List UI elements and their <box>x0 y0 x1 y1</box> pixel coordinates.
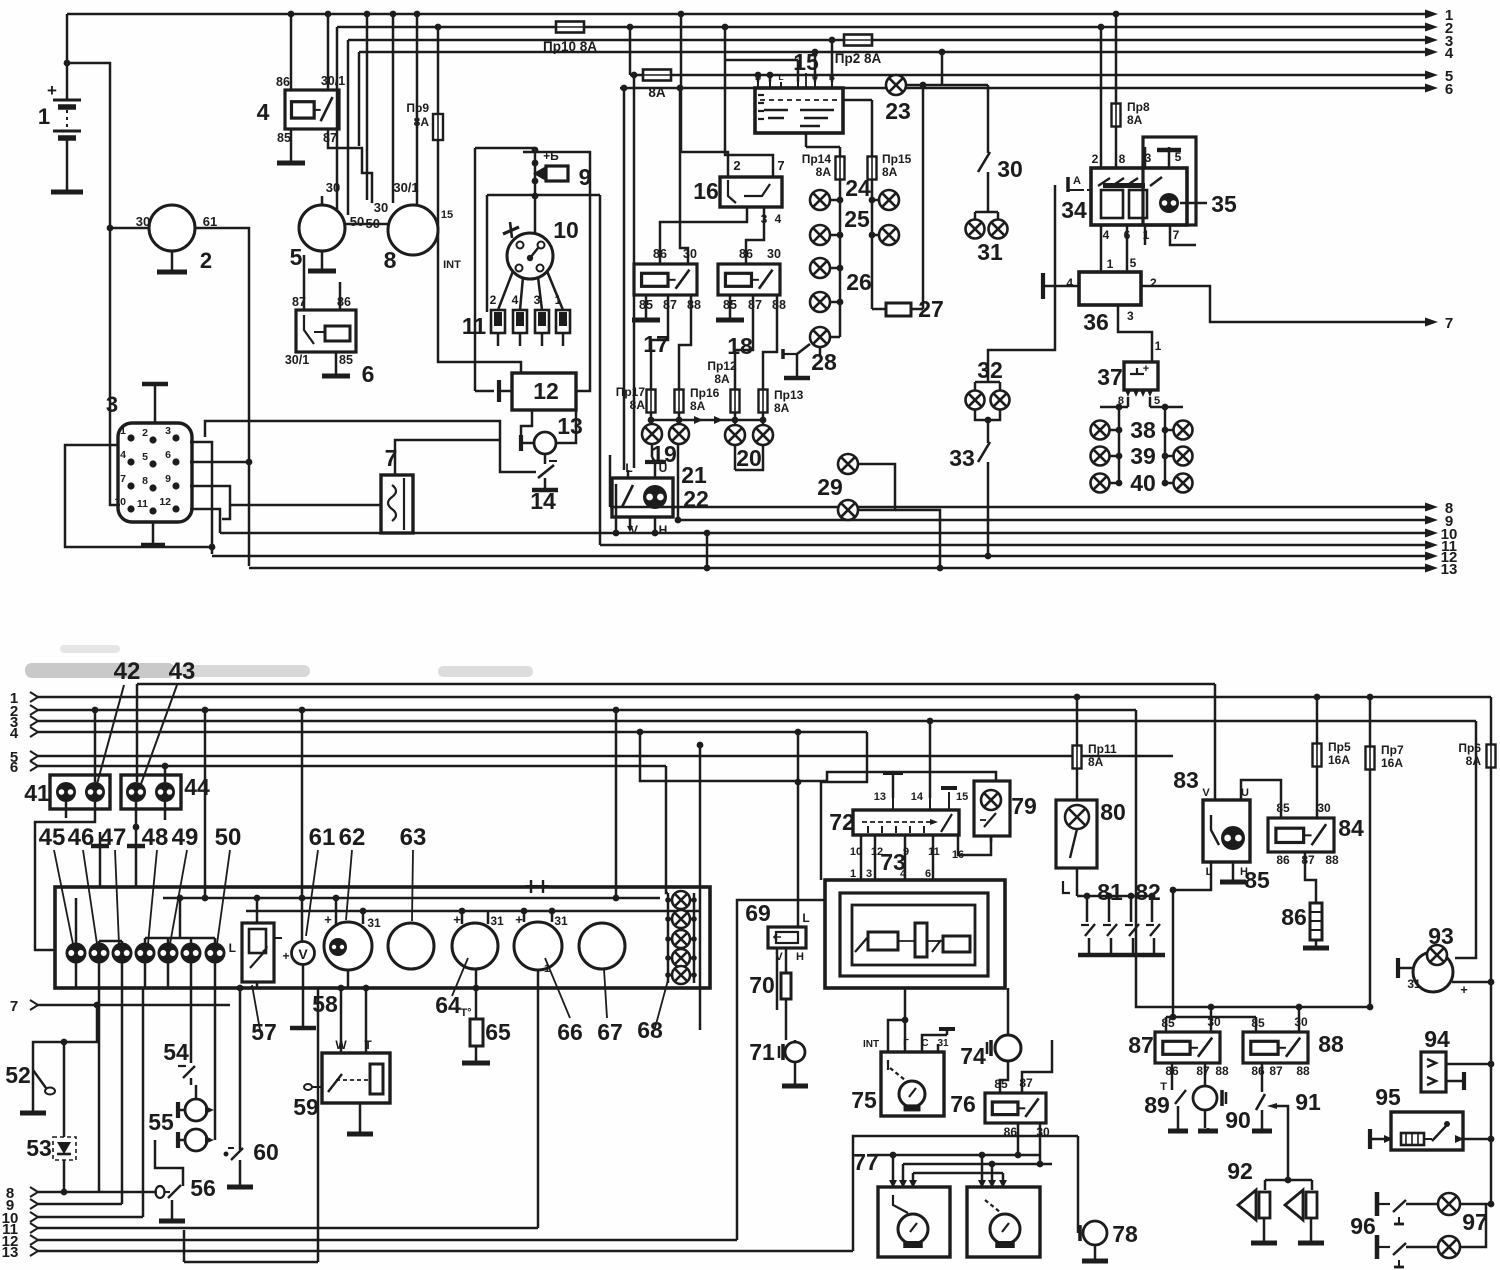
wire 29 bracket <box>858 464 943 571</box>
wire line5 tap <box>627 24 634 75</box>
wire 41 out <box>35 802 95 950</box>
label 26 <box>846 269 872 295</box>
wire 13 right <box>556 410 576 443</box>
wire bus line 10 <box>220 526 1457 543</box>
ground generator 2 <box>157 251 187 272</box>
label 40 <box>1130 470 1156 496</box>
svg-text:33: 33 <box>949 445 975 471</box>
svg-text:69: 69 <box>745 900 771 926</box>
label 43 <box>141 658 195 784</box>
wire 44 feed <box>136 684 139 782</box>
svg-text:30: 30 <box>1317 801 1331 815</box>
flasher 7 <box>381 445 413 533</box>
svg-text:4: 4 <box>1445 45 1454 62</box>
wire bus line 8 <box>610 500 1453 517</box>
svg-text:1: 1 <box>850 868 856 880</box>
svg-text:30: 30 <box>767 247 781 261</box>
svg-text:42: 42 <box>114 658 141 685</box>
cluster lamp 3 <box>112 943 133 964</box>
wire bot line 1 <box>10 690 1491 707</box>
wire 53 <box>61 1039 68 1196</box>
svg-text:60: 60 <box>253 1139 279 1165</box>
svg-text:87: 87 <box>1301 853 1315 867</box>
switch A of 34 <box>1068 175 1091 192</box>
svg-text:31: 31 <box>554 914 568 928</box>
svg-text:6: 6 <box>925 868 931 880</box>
ground 83 <box>1220 862 1270 893</box>
svg-text:55: 55 <box>148 1109 174 1135</box>
svg-text:2: 2 <box>733 158 740 173</box>
wire 36 pin3 <box>1118 305 1162 362</box>
svg-text:8А: 8А <box>714 372 730 386</box>
lamp 38a <box>1091 421 1123 440</box>
svg-text:2: 2 <box>142 427 148 439</box>
diode 53 <box>26 1135 76 1161</box>
svg-text:+: + <box>324 912 332 927</box>
svg-text:8: 8 <box>384 247 397 273</box>
label 49 <box>170 824 198 944</box>
svg-text:1: 1 <box>1107 257 1114 271</box>
svg-text:L: L <box>802 911 809 925</box>
svg-text:83: 83 <box>1173 767 1199 793</box>
svg-text:4: 4 <box>257 99 270 125</box>
wire conn left loop <box>65 445 215 550</box>
switch 91 <box>1252 1063 1321 1180</box>
wire 83 L <box>1170 862 1211 893</box>
connector 72 <box>829 809 959 835</box>
ground above 72 pin13 <box>883 773 903 798</box>
coil12 left terminal <box>499 380 512 402</box>
wire 79 feed <box>637 729 996 781</box>
ground above 34 <box>1157 147 1181 168</box>
svg-text:90: 90 <box>1225 1107 1251 1133</box>
svg-text:53: 53 <box>26 1135 52 1161</box>
wire 76 87 <box>1022 1040 1052 1093</box>
svg-text:23: 23 <box>885 98 911 124</box>
svg-text:24: 24 <box>845 175 871 201</box>
wire 72 pin16 <box>958 835 991 855</box>
svg-text:2: 2 <box>490 293 497 307</box>
svg-text:3: 3 <box>866 868 872 880</box>
svg-text:70: 70 <box>749 972 775 998</box>
wire 72 pin14 <box>927 718 934 798</box>
wire top line 683 <box>137 683 1215 686</box>
svg-text:88: 88 <box>1215 1064 1229 1078</box>
svg-text:8: 8 <box>1119 152 1126 166</box>
svg-text:57: 57 <box>251 1019 277 1045</box>
wire 76 85 <box>1000 1061 1008 1093</box>
wire 50 link <box>345 216 388 231</box>
wire 77 feed left <box>853 1136 1078 1251</box>
svg-text:86: 86 <box>1276 853 1290 867</box>
svg-text:91: 91 <box>1295 1089 1321 1115</box>
ground relay17 <box>632 295 660 320</box>
label 45 <box>39 824 73 944</box>
wire jog 707 <box>704 530 711 572</box>
wire 16 pin2 <box>678 11 728 177</box>
ground above 21 <box>645 462 666 478</box>
wire 77 bus c <box>913 1152 1003 1183</box>
wire conn mid <box>190 509 220 533</box>
fuse Пр16 8А <box>675 386 720 413</box>
wire reg pin B1 <box>755 72 762 82</box>
svg-text:16: 16 <box>693 178 719 204</box>
svg-text:50: 50 <box>366 216 380 231</box>
svg-text:+: + <box>1460 982 1468 997</box>
wire 83 V <box>1214 684 1217 800</box>
regulator 15 pins <box>755 72 835 88</box>
wire 84 87 down <box>1305 852 1316 903</box>
wire 68 feed <box>666 766 668 893</box>
lamp stems <box>76 898 215 1192</box>
wire coil12 right <box>523 152 590 391</box>
label 42 <box>97 658 140 784</box>
gauge 63 <box>388 923 434 969</box>
switch 5 <box>290 180 365 270</box>
svg-text:52: 52 <box>5 1062 31 1088</box>
switch 96a <box>1377 1192 1438 1224</box>
svg-text:76: 76 <box>950 1091 976 1117</box>
wire line11 bend <box>599 195 602 545</box>
wire line9 up <box>121 988 124 1204</box>
wire 34 pin2 <box>1098 24 1105 168</box>
svg-text:85: 85 <box>1244 867 1270 893</box>
cluster lamp 1 <box>66 943 87 964</box>
label T deg <box>460 1007 471 1019</box>
relay6 labels <box>285 295 375 387</box>
label 20 <box>736 445 762 471</box>
cluster rail 911 <box>246 910 700 913</box>
svg-text:67: 67 <box>597 1019 623 1045</box>
svg-text:25: 25 <box>844 206 870 232</box>
svg-text:7: 7 <box>777 158 784 173</box>
label 25 <box>844 206 870 232</box>
svg-text:72: 72 <box>829 809 855 835</box>
wire bot line 4 <box>10 725 867 742</box>
ground 71 <box>782 1062 808 1086</box>
svg-text:58: 58 <box>312 991 338 1017</box>
svg-text:2: 2 <box>1092 152 1099 166</box>
svg-text:88: 88 <box>1318 1031 1344 1057</box>
lamp 74 <box>960 988 1021 1069</box>
wiper switch 34 <box>1061 137 1196 225</box>
wire 77 bus b <box>903 1161 1052 1183</box>
connector 94 <box>1421 1026 1494 1092</box>
wire 62 pins <box>333 895 367 924</box>
72 bottom pins <box>850 846 964 861</box>
svg-text:75: 75 <box>851 1087 877 1113</box>
svg-text:94: 94 <box>1424 1026 1450 1052</box>
resistor 70 <box>749 948 791 1040</box>
fuse Пр15 8А <box>868 152 912 180</box>
svg-text:7: 7 <box>1445 315 1453 332</box>
svg-text:Пр15: Пр15 <box>882 152 912 166</box>
svg-text:15: 15 <box>956 791 968 803</box>
switch block 21-22 <box>612 461 709 537</box>
svg-text:71: 71 <box>749 1039 775 1065</box>
svg-text:87: 87 <box>748 298 762 312</box>
lamp 39b <box>1162 447 1193 466</box>
wire 44 out <box>133 802 165 887</box>
lamp 24b <box>869 190 899 210</box>
svg-text:L: L <box>229 941 236 955</box>
svg-text:15: 15 <box>441 209 453 221</box>
svg-text:+: + <box>515 912 523 927</box>
switch 96b <box>1377 1235 1438 1267</box>
wire extra 1262 <box>184 988 318 1262</box>
svg-text:13: 13 <box>2 1244 19 1261</box>
svg-text:86: 86 <box>276 75 290 89</box>
svg-text:97: 97 <box>1462 1209 1488 1235</box>
cluster tick <box>525 880 549 893</box>
wire 72-73 a <box>860 835 863 880</box>
wire bot line 8 <box>6 1185 157 1202</box>
wire 64 down <box>473 969 480 1019</box>
svg-text:14: 14 <box>530 488 556 514</box>
wire fuse9 <box>435 24 521 373</box>
ground relay18 <box>716 295 744 320</box>
wire lamp col left <box>839 180 842 337</box>
wire flasher top <box>395 440 500 475</box>
relay block 16 <box>693 158 784 226</box>
lamp 23 <box>885 49 988 124</box>
label 48 <box>142 824 169 944</box>
connector X3 <box>118 423 192 522</box>
ground above connector <box>142 384 168 423</box>
svg-text:38: 38 <box>1130 417 1156 443</box>
cluster lamp 4 <box>135 943 156 964</box>
terminal T2 <box>127 844 145 849</box>
relay 36 <box>1066 256 1157 335</box>
wire bus line 3 <box>348 33 1453 50</box>
ground 59 <box>347 1103 373 1134</box>
svg-text:31: 31 <box>977 239 1003 265</box>
instrument cluster <box>55 887 710 988</box>
wire reg pin U <box>812 49 819 82</box>
svg-text:11: 11 <box>137 498 148 510</box>
svg-text:6: 6 <box>362 361 375 387</box>
cluster rail 898 <box>163 897 660 900</box>
fuse Пр5 16А <box>1313 694 1351 818</box>
wire battery to node <box>64 60 110 228</box>
wire gen right 61 <box>195 228 249 566</box>
lamp 26a <box>810 258 843 278</box>
svg-text:13: 13 <box>874 791 886 803</box>
wire 19b down <box>675 444 682 523</box>
relay 84 <box>1268 801 1364 867</box>
svg-text:20: 20 <box>736 445 762 471</box>
svg-text:82: 82 <box>1135 879 1161 905</box>
lamp 97b <box>1438 1204 1486 1258</box>
svg-text:30: 30 <box>374 200 388 215</box>
spark plugs 11 <box>462 293 570 346</box>
wire 44 right feed <box>162 763 169 782</box>
fuse Пр8 8А <box>1112 11 1150 168</box>
svg-text:2: 2 <box>1150 276 1157 290</box>
svg-text:46: 46 <box>68 824 95 851</box>
label 63 <box>400 824 427 921</box>
svg-text:92: 92 <box>1227 1158 1253 1184</box>
fuse Пр11 8А <box>1073 694 1117 800</box>
wire bus line 4 <box>359 45 1454 62</box>
svg-text:8: 8 <box>142 475 148 487</box>
wire fuse link <box>648 412 767 424</box>
wire drop 205 <box>202 707 209 902</box>
wire bus line 9 <box>678 513 1453 530</box>
label 62 <box>339 824 366 920</box>
svg-text:5: 5 <box>1130 256 1137 270</box>
wire cap plug3 <box>538 277 542 310</box>
ground relay4 <box>277 129 305 163</box>
svg-text:9: 9 <box>165 473 171 485</box>
svg-text:+: + <box>47 81 57 100</box>
switch 30 <box>978 85 1023 212</box>
wire 72-73 d <box>932 835 935 880</box>
wire v337 <box>336 27 339 213</box>
label 19 <box>651 441 677 467</box>
svg-text:31: 31 <box>1407 977 1421 991</box>
svg-text:59: 59 <box>293 1094 319 1120</box>
fuse Пр12 8А <box>707 359 739 413</box>
gauge 64 <box>435 912 504 1018</box>
wire ign second <box>487 195 600 312</box>
svg-text:47: 47 <box>100 824 127 851</box>
svg-text:68: 68 <box>637 1017 663 1043</box>
ground relay6 <box>322 352 350 376</box>
wire bus line 1 <box>67 7 1453 24</box>
svg-text:64: 64 <box>435 992 461 1018</box>
label 46 <box>68 824 97 944</box>
svg-text:Т°: Т° <box>460 1007 471 1019</box>
lamps 31 <box>966 212 1008 265</box>
switch 52 <box>5 1062 55 1113</box>
svg-text:4: 4 <box>900 868 907 880</box>
wire v393 <box>390 11 397 203</box>
wire 16 pin3 <box>660 207 747 264</box>
label 77 <box>853 1149 879 1175</box>
wire 80 down <box>1063 868 1152 896</box>
wire relay6 87 up <box>303 255 306 310</box>
wire reg pin B2 <box>829 37 836 82</box>
wire v359 <box>358 52 361 146</box>
svg-text:30: 30 <box>683 247 697 261</box>
lamp block 41 <box>24 775 110 809</box>
svg-text:30/1: 30/1 <box>285 353 309 367</box>
motor box 77b <box>967 1180 1040 1257</box>
svg-text:89: 89 <box>1144 1092 1170 1118</box>
wire conn right 3 <box>190 486 230 519</box>
wire 73 left feed <box>795 732 867 880</box>
ground 86 <box>1303 940 1329 948</box>
resistor 27 <box>872 296 944 322</box>
svg-text:3: 3 <box>534 293 541 307</box>
lamps 32 <box>966 357 1010 410</box>
svg-text:10: 10 <box>553 217 579 243</box>
svg-text:32: 32 <box>977 357 1003 383</box>
wire line10 bend <box>613 484 620 536</box>
lamp 97a <box>1438 1193 1494 1215</box>
svg-text:56: 56 <box>190 1175 216 1201</box>
gauge 66 <box>514 912 583 1045</box>
svg-text:+: + <box>453 912 461 927</box>
lamps 68 <box>665 891 697 984</box>
svg-text:80: 80 <box>1100 799 1126 825</box>
wire 32 feed <box>975 185 1055 390</box>
wire 77 bus a <box>870 1152 1040 1183</box>
switch 28 <box>783 344 837 378</box>
svg-text:12: 12 <box>533 378 559 404</box>
label 96 <box>1350 1213 1376 1239</box>
svg-text:1: 1 <box>1155 339 1162 353</box>
lamp 25b <box>869 225 899 245</box>
svg-text:Пр13: Пр13 <box>774 388 804 402</box>
wire 23 tap <box>920 82 927 309</box>
sender 59 <box>293 1038 390 1120</box>
svg-text:18: 18 <box>727 333 753 359</box>
switch 89 <box>1144 1063 1188 1131</box>
ammeter 62 <box>324 912 381 970</box>
svg-text:63: 63 <box>400 824 427 851</box>
switch 69 <box>745 900 809 963</box>
ground 79 <box>990 836 993 842</box>
svg-text:5: 5 <box>142 451 148 463</box>
switch 14 <box>530 454 558 514</box>
lamp 40a <box>1091 474 1123 493</box>
svg-text:88: 88 <box>1296 1064 1310 1078</box>
svg-text:4: 4 <box>775 212 782 226</box>
wire bot line 9 <box>6 1197 122 1214</box>
svg-text:29: 29 <box>817 474 843 500</box>
svg-text:7: 7 <box>120 473 126 485</box>
switch 13 <box>521 413 583 454</box>
label 97 <box>1462 1209 1488 1235</box>
wire bus line 5 <box>630 68 1453 85</box>
svg-text:35: 35 <box>1211 191 1237 217</box>
wire 17-30 feed <box>677 85 688 264</box>
wire 72-73 c <box>904 835 907 880</box>
wire 36 pin2 line7 <box>1141 286 1453 332</box>
svg-text:1: 1 <box>38 104 50 129</box>
svg-text:8А: 8А <box>882 165 898 179</box>
svg-text:88: 88 <box>772 298 786 312</box>
svg-text:13: 13 <box>1441 561 1458 578</box>
svg-text:30/1: 30/1 <box>321 74 345 88</box>
ground left 36 <box>1043 273 1079 299</box>
switch 60 <box>224 985 279 1187</box>
wire 72-73 b <box>874 835 877 880</box>
cluster lamp 7 <box>205 943 226 964</box>
wire line2 to 30bus <box>1136 710 1205 1007</box>
wire 34 pin6 <box>1126 225 1129 272</box>
svg-text:6: 6 <box>165 449 171 461</box>
wire bot line 6 <box>10 759 666 776</box>
svg-text:37: 37 <box>1097 364 1123 390</box>
wire bot line 5 <box>10 749 1173 766</box>
wire 21 V pin <box>627 517 633 532</box>
svg-text:А: А <box>1073 175 1081 187</box>
wire 57 down <box>256 982 259 988</box>
wire 76 30 <box>1037 1123 1044 1167</box>
svg-text:86: 86 <box>1281 904 1307 930</box>
wire node down-left <box>107 225 120 505</box>
ignition coil 12 <box>512 373 576 410</box>
wire 30 bus <box>1205 1004 1373 1032</box>
svg-text:84: 84 <box>1338 815 1364 841</box>
svg-text:50: 50 <box>350 214 364 229</box>
svg-text:34: 34 <box>1061 197 1087 223</box>
svg-text:39: 39 <box>1130 443 1156 469</box>
lamp 26b <box>810 292 843 312</box>
